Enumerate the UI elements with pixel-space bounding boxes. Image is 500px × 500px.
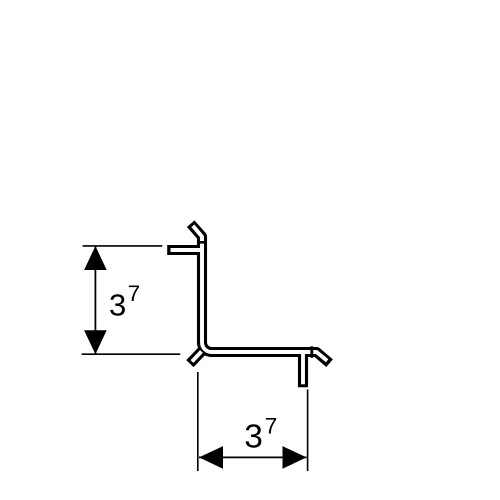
svg-text:3: 3 <box>244 419 263 456</box>
svg-text:3: 3 <box>109 288 126 323</box>
svg-text:7: 7 <box>265 414 278 439</box>
svg-text:7: 7 <box>128 281 141 306</box>
